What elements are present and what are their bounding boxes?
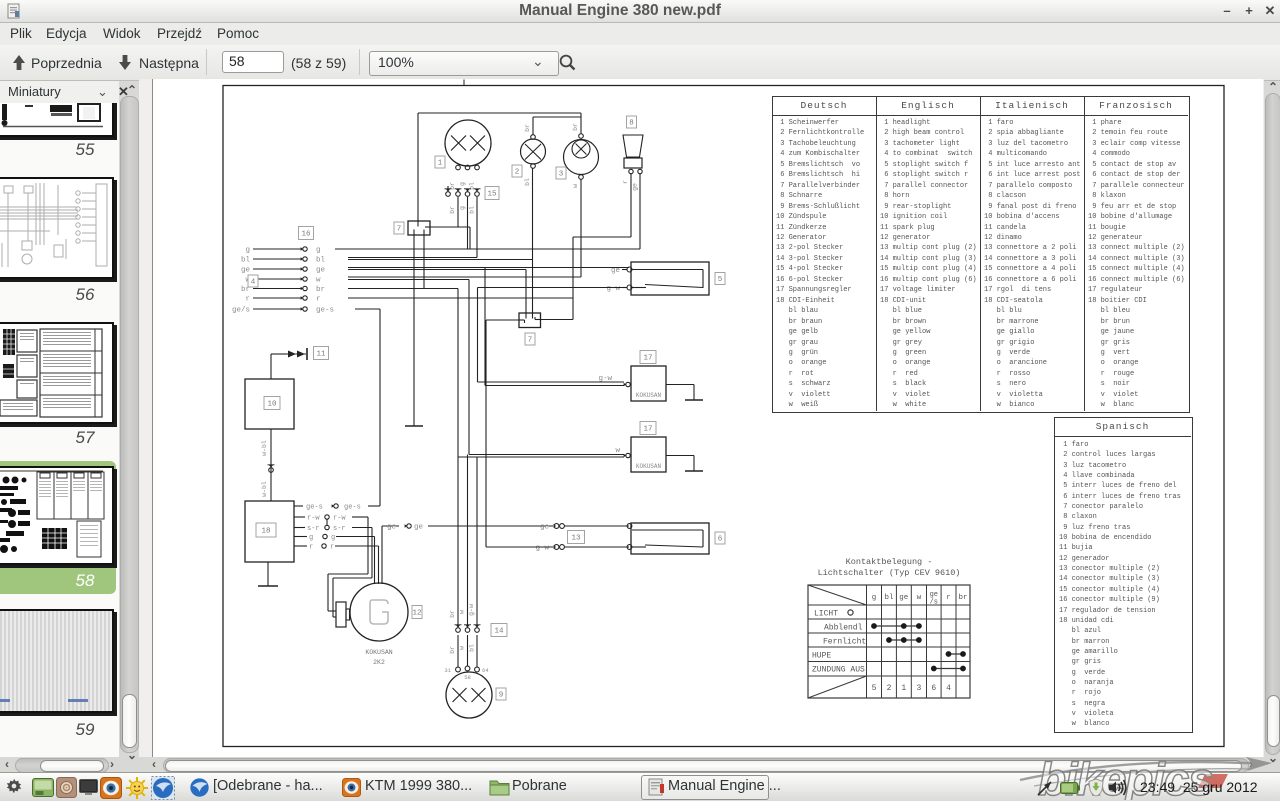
active button icon: document: [648, 778, 665, 796]
wire row w (pair): [348, 276, 581, 278]
svg-text:s-r: s-r: [333, 525, 346, 533]
svg-text:g: g: [459, 182, 466, 186]
wire g-w to lamp5: [478, 287, 623, 289]
CDI pin r-w: [294, 516, 305, 518]
menu icon: [32, 778, 54, 797]
tachometer light (3): [564, 140, 599, 175]
main horizontal scrollbar: [152, 757, 156, 771]
CDI pin s-r: [294, 527, 305, 529]
svg-text:7: 7: [528, 337, 533, 345]
svg-text:17: 17: [643, 355, 652, 363]
svg-text:6: 6: [718, 536, 723, 544]
svg-text:r-w: r-w: [307, 515, 320, 523]
svg-text:58: 58: [464, 674, 471, 681]
svg-text:br: br: [449, 646, 456, 654]
svg-text:br: br: [572, 123, 579, 131]
svg-text:13: 13: [571, 535, 581, 543]
rear stop light (9): [446, 672, 492, 718]
rear stop lamp unit (6): [631, 523, 709, 554]
svg-text:12: 12: [412, 610, 421, 618]
svg-text:7: 7: [397, 226, 402, 234]
thumb 56: [0, 177, 114, 279]
svg-text:br: br: [958, 594, 967, 602]
svg-text:bl: bl: [884, 594, 894, 602]
svg-text:bl: bl: [469, 206, 476, 214]
svg-text:16: 16: [301, 231, 311, 239]
parallel connector 7a: [408, 221, 430, 235]
svg-text:5: 5: [718, 276, 723, 284]
svg-text:br: br: [449, 610, 456, 618]
svg-text:ge: ge: [387, 524, 396, 532]
svg-text:64: 64: [482, 667, 489, 674]
svg-text:6: 6: [931, 684, 936, 693]
svg-text:ge-s: ge-s: [306, 504, 323, 512]
svg-text:ge: ge: [241, 267, 250, 275]
svg-text:ZUNDUNG AUS: ZUNDUNG AUS: [812, 666, 865, 675]
svg-text:bl: bl: [316, 257, 326, 265]
svg-text:br: br: [449, 206, 456, 214]
taskbar button 3: folder: [489, 778, 510, 796]
svg-text:s-r: s-r: [307, 525, 320, 533]
svg-text:Lichtschalter (Typ CEV 9610): Lichtschalter (Typ CEV 9610): [818, 568, 961, 578]
wire g-w pair to regulator: [477, 288, 479, 383]
generator top wires: [374, 537, 376, 585]
svg-text:ge: ge: [414, 524, 423, 532]
/TABLES: [0, 103, 119, 757]
svg-text:KOKUSAN: KOKUSAN: [636, 392, 662, 399]
CDI ground: [267, 562, 269, 586]
svg-text:ge-s: ge-s: [344, 504, 361, 512]
svg-text:bl: bl: [524, 178, 531, 186]
svg-text:4: 4: [946, 684, 951, 693]
tray: speaker: [1108, 779, 1130, 796]
svg-text:r: r: [245, 296, 250, 304]
svg-text:5: 5: [872, 684, 877, 693]
wire horn r: [630, 174, 632, 237]
svg-text:r: r: [330, 544, 334, 552]
svg-text:1: 1: [438, 160, 443, 168]
svg-text:31: 31: [444, 667, 451, 674]
wire g to row g: [467, 197, 469, 249]
svg-text:HUPE: HUPE: [812, 652, 831, 661]
wire headlamp/lamp top bus: [418, 112, 581, 114]
spark plug (11): [288, 351, 296, 358]
svg-text:g: g: [316, 247, 321, 255]
generator brush housing: [336, 602, 346, 627]
svg-text:br: br: [524, 124, 531, 132]
svg-text:bl: bl: [241, 257, 251, 265]
voltage regulator (17) lower: [640, 422, 656, 435]
svg-text:g: g: [245, 247, 250, 255]
sun icon: [126, 777, 148, 799]
svg-text:w-bl: w-bl: [261, 440, 268, 456]
svg-text:w: w: [459, 610, 466, 614]
connector X15 (4-pol Stecker): [446, 192, 451, 197]
svg-text:14: 14: [494, 628, 504, 636]
taskbar button 1: thunderbird: [189, 777, 210, 798]
svg-text:Abblendl: Abblendl: [824, 624, 863, 633]
svg-text:3: 3: [916, 684, 921, 693]
svg-text:w: w: [459, 646, 466, 650]
thumb 55: [0, 58, 114, 137]
stop/tail lamp unit (5): [631, 262, 709, 295]
svg-text:br: br: [316, 286, 325, 294]
headlamp H1 (1): [445, 120, 491, 166]
generator (12) KOKUSAN 2K2: [350, 583, 408, 641]
gear icon: [5, 777, 23, 795]
high-beam control lamp (2): [521, 139, 546, 164]
screen icon: [79, 779, 98, 796]
bikepics watermark: [1000, 750, 1280, 800]
svg-text:17: 17: [643, 426, 652, 434]
svg-text:2K2: 2K2: [373, 659, 385, 666]
wire row ge (pair): [348, 267, 629, 269]
svg-text:w: w: [917, 594, 922, 602]
wire ge from generator: [381, 526, 383, 584]
thumb 58 selected: [0, 461, 116, 594]
connector X13 (2-pol): [554, 524, 559, 529]
voltage regulator (17) upper: [640, 351, 656, 364]
wire horn ge: [639, 174, 641, 249]
svg-text:3: 3: [559, 171, 564, 179]
svg-text:2: 2: [515, 169, 520, 177]
wire row br: [348, 288, 458, 290]
taskbar button 2: eye: [342, 778, 361, 797]
svg-text:11: 11: [316, 351, 326, 359]
thumb 59: [0, 609, 114, 713]
svg-text:1: 1: [901, 684, 906, 693]
svg-text:8: 8: [629, 120, 634, 128]
svg-text:/s: /s: [930, 599, 938, 607]
sidebar horizontal scrollbar: [5, 757, 9, 771]
svg-text:4: 4: [251, 279, 256, 287]
wire bl to row bl: [476, 197, 478, 258]
svg-text:ge: ge: [611, 267, 620, 275]
svg-text:r-w: r-w: [333, 515, 346, 523]
tray: battery: [1060, 782, 1080, 794]
svg-text:g-w: g-w: [606, 285, 620, 293]
shell icon: [56, 777, 77, 798]
wire row bl (pair): [348, 257, 477, 259]
svg-text:g: g: [331, 534, 335, 542]
svg-text:w: w: [615, 447, 620, 455]
svg-text:2: 2: [887, 684, 892, 693]
wire row r: [348, 297, 573, 299]
svg-text:r: r: [309, 544, 313, 552]
CDI pin r: [294, 545, 307, 547]
drawing frame border: [223, 86, 1224, 747]
wire w pair to regulator b: [468, 280, 470, 455]
svg-text:LICHT: LICHT: [814, 610, 838, 619]
rear stop light (9) pins: [456, 667, 461, 672]
svg-text:18: 18: [261, 528, 270, 536]
svg-text:ge: ge: [316, 267, 325, 275]
main vertical scrollbar: [1268, 80, 1278, 94]
svg-text:r: r: [316, 296, 321, 304]
parallel connector 7b: [519, 313, 541, 328]
svg-text:g-w: g-w: [468, 604, 475, 616]
CDI pin ge-s: [294, 505, 303, 507]
svg-text:w: w: [572, 184, 579, 188]
svg-text:Fernlicht: Fernlicht: [823, 638, 866, 647]
sidebar vertical scrollbar: [127, 83, 137, 97]
CDI pin g: [294, 536, 307, 538]
wire row ge-s: [355, 308, 380, 310]
svg-text:g: g: [309, 534, 313, 542]
tray: pen: [1036, 779, 1054, 797]
svg-text:r: r: [946, 594, 951, 602]
SVG: [152, 79, 1262, 757]
svg-text:w-bl: w-bl: [261, 481, 268, 497]
eye icon: [100, 777, 122, 799]
svg-text:g: g: [459, 206, 466, 210]
svg-text:ge: ge: [540, 524, 549, 532]
svg-text:ge-s: ge-s: [316, 307, 334, 315]
wire row g: [335, 248, 640, 250]
thunderbird icon (selected): [151, 776, 175, 800]
svg-text:ge: ge: [899, 594, 908, 602]
svg-text:bl: bl: [469, 644, 476, 652]
thumb 57: [0, 322, 114, 424]
svg-text:10: 10: [267, 401, 277, 409]
svg-text:ge/s: ge/s: [232, 307, 250, 315]
horn (8): [627, 116, 637, 128]
svg-text:KOKUSAN: KOKUSAN: [365, 649, 392, 656]
wire coil to spark plug: [270, 354, 272, 379]
wire br to parallel connector 7a: [457, 197, 459, 227]
svg-text:r: r: [622, 180, 629, 184]
tray: shield: [1088, 778, 1104, 797]
legend table (4 languages): [772, 96, 1190, 413]
legend table (Spanish): [1054, 417, 1193, 733]
svg-text:g: g: [872, 594, 877, 602]
svg-text:15: 15: [487, 191, 497, 199]
svg-text:KOKUSAN: KOKUSAN: [636, 463, 662, 470]
wire coil to CDI: [270, 429, 272, 501]
wires to brush: [328, 610, 336, 612]
svg-text:g-w: g-w: [535, 545, 549, 553]
svg-text:ge: ge: [632, 183, 639, 191]
svg-text:Kontaktbelegung -: Kontaktbelegung -: [846, 557, 933, 567]
svg-text:w: w: [316, 277, 321, 285]
svg-text:9: 9: [499, 692, 504, 700]
CDI unit (18): [245, 501, 294, 562]
svg-text:g-w: g-w: [598, 375, 612, 383]
ignition coil (10): [245, 379, 294, 429]
